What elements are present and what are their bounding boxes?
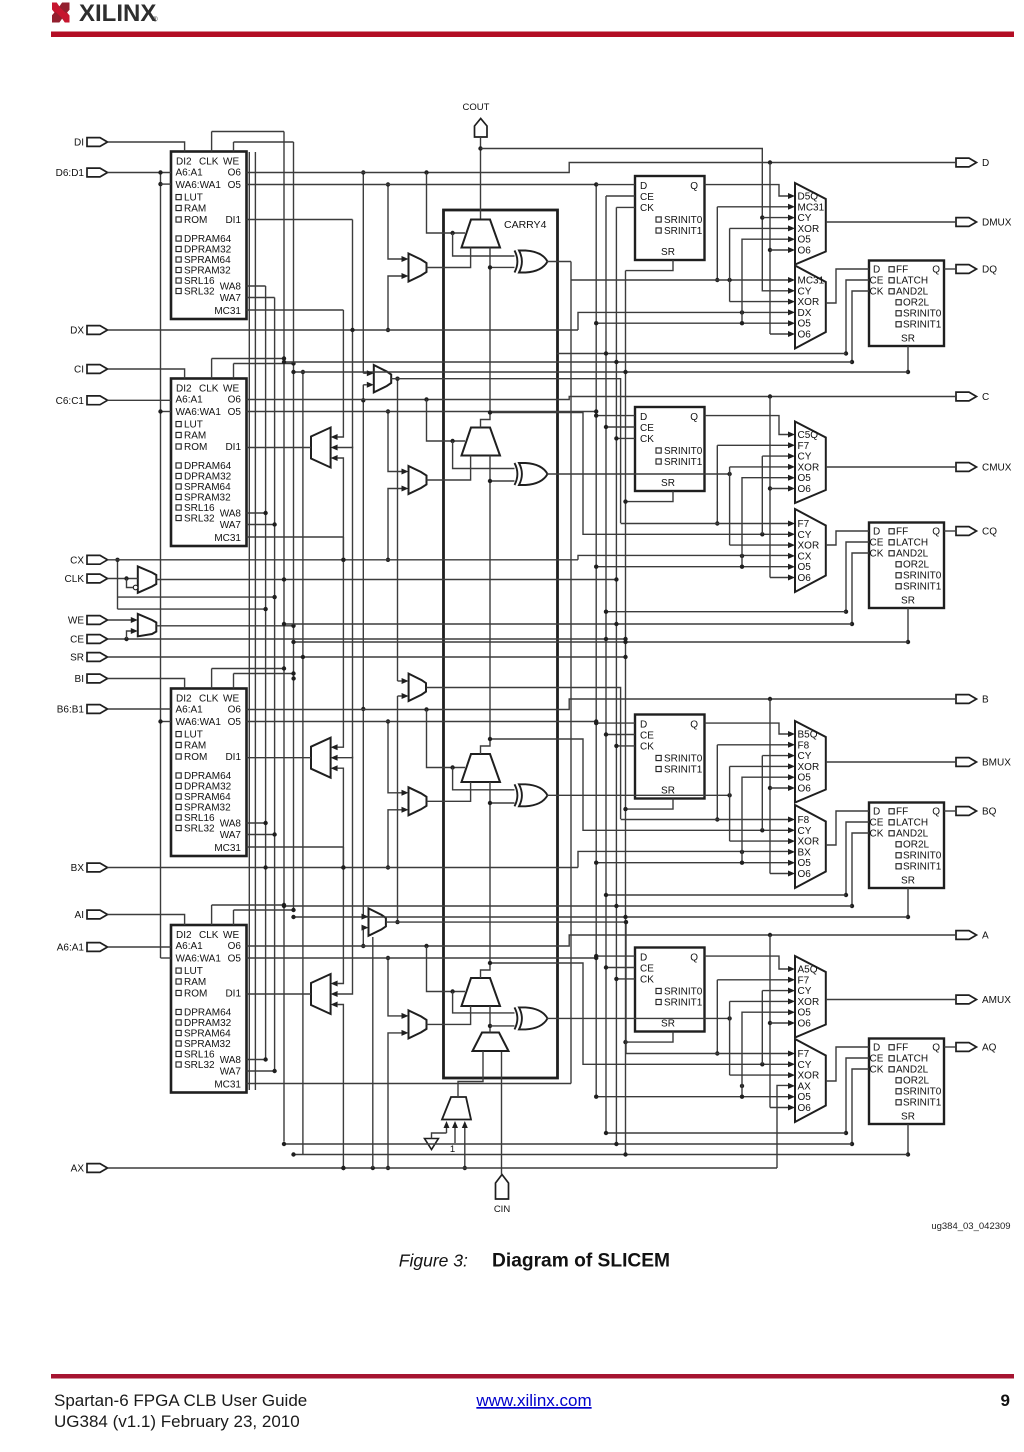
- svg-text:ROM: ROM: [184, 752, 207, 763]
- wire XOR output D: [547, 261, 571, 263]
- output mux DMUX: [795, 183, 826, 265]
- wire clock branch LUT D: [212, 131, 284, 133]
- svg-text:SR: SR: [901, 1112, 915, 1123]
- output pin BMUX: [956, 758, 977, 767]
- wire O5 D to FF: [247, 184, 597, 186]
- wire FF/LAT CE CK B: [846, 822, 869, 895]
- wire BI to LUT B: [108, 679, 185, 689]
- svg-text:O5: O5: [798, 473, 812, 484]
- svg-text:SRINIT0: SRINIT0: [903, 309, 942, 320]
- svg-text:SRINIT1: SRINIT1: [903, 582, 942, 593]
- svg-text:O5: O5: [798, 235, 812, 246]
- svg-text:DX: DX: [70, 326, 84, 337]
- storage element FF/LAT BFF: [869, 803, 944, 889]
- XOR gate D: [519, 251, 548, 273]
- wire A6:A1 to LUT A: [108, 946, 172, 948]
- svg-text:SRL16: SRL16: [184, 276, 215, 287]
- wire CE underline B: [606, 894, 846, 896]
- CARRY4 block: [444, 210, 558, 1078]
- svg-text:CK: CK: [870, 829, 884, 840]
- svg-text:SRINIT0: SRINIT0: [903, 571, 942, 582]
- svg-text:SRINIT1: SRINIT1: [903, 862, 942, 873]
- wire select to XOR C: [453, 441, 515, 469]
- wire select to XOR B: [453, 768, 515, 790]
- wire FF/LAT Q to pin D: [944, 268, 956, 270]
- output mux AQ source mux: [795, 1039, 826, 1122]
- svg-text:DI: DI: [74, 138, 84, 149]
- wire O5 comb C: [596, 566, 788, 568]
- wire rail CLK: [283, 132, 285, 1142]
- svg-text:WA7: WA7: [220, 830, 242, 841]
- svg-text:COUT: COUT: [463, 102, 490, 113]
- wire carry init output: [458, 1051, 483, 1097]
- svg-text:CMUX: CMUX: [982, 463, 1012, 474]
- wire DI mux A inputs: [388, 958, 402, 1016]
- svg-text:AI: AI: [75, 910, 84, 921]
- svg-text:D5Q: D5Q: [798, 192, 819, 203]
- wire rail WE: [293, 142, 295, 910]
- wire O6 A to output: [247, 935, 957, 946]
- output pin CQ: [956, 527, 977, 536]
- wire SR underline B: [294, 916, 909, 918]
- wire DI mux C output: [427, 456, 471, 481]
- PRECYINIT mux: [473, 1033, 509, 1052]
- wire MC31 C: [247, 536, 344, 538]
- svg-text:SRL16: SRL16: [184, 813, 215, 824]
- svg-text:XOR: XOR: [798, 997, 820, 1008]
- wire CE underline A: [606, 1132, 846, 1134]
- wire MUXF7 A output F7: [386, 922, 626, 1053]
- wire CY tap D: [481, 149, 789, 291]
- Xilinx logo glyph: [52, 2, 70, 23]
- svg-text:DQ: DQ: [982, 265, 997, 276]
- svg-text:F7: F7: [798, 1049, 810, 1060]
- wire O5 comb B: [596, 862, 788, 864]
- svg-text:O5: O5: [798, 319, 812, 330]
- wire MUXF8 B inputs: [398, 680, 402, 682]
- svg-text:D: D: [640, 720, 647, 731]
- XOR gate A: [519, 1007, 548, 1029]
- wire WE buffer output: [156, 625, 293, 627]
- svg-text:RAM: RAM: [184, 204, 206, 215]
- wire WA8 stub C: [247, 512, 266, 514]
- mux MUXF7 A: [369, 908, 386, 935]
- wire FF SR C: [626, 491, 674, 502]
- output mux AMUX: [795, 956, 826, 1038]
- svg-text:DPRAM32: DPRAM32: [184, 245, 232, 256]
- svg-text:LUT: LUT: [184, 420, 203, 431]
- svg-text:SR: SR: [901, 334, 915, 345]
- wire BX line: [108, 867, 579, 869]
- svg-text:BQ: BQ: [982, 807, 997, 818]
- wire O6 comb C: [769, 397, 771, 578]
- wire WA7 stub A: [247, 1070, 275, 1072]
- svg-text:DMUX: DMUX: [982, 218, 1012, 229]
- wire vertical F7 chain: [397, 379, 399, 681]
- svg-text:CY: CY: [798, 751, 812, 762]
- wire MUXF7 C inputs: [363, 372, 367, 374]
- svg-text:O6: O6: [798, 246, 812, 257]
- svg-text:DPRAM64: DPRAM64: [184, 771, 232, 782]
- constant 0 marker: [425, 1139, 439, 1150]
- svg-text:CE: CE: [640, 192, 654, 203]
- wire WA7 stub B: [247, 834, 275, 836]
- svg-text:CK: CK: [870, 1065, 884, 1076]
- wire XOR B carry input: [490, 802, 515, 804]
- svg-text:FF: FF: [896, 265, 908, 276]
- svg-text:O5: O5: [228, 717, 242, 728]
- wire DI1 mux C input MC31: [338, 310, 344, 437]
- svg-text:CK: CK: [640, 203, 654, 214]
- svg-text:O5: O5: [228, 407, 242, 418]
- wire FF/LAT Q to pin C: [944, 530, 956, 532]
- output pin AMUX: [956, 995, 977, 1004]
- wire MUXF8 B output F8: [427, 688, 621, 820]
- svg-text:SR: SR: [661, 1019, 675, 1030]
- svg-text:O5: O5: [798, 858, 812, 869]
- DI1 write mux C: [311, 428, 331, 468]
- svg-text:O6: O6: [798, 869, 812, 880]
- wire O5 A to FF: [247, 957, 597, 959]
- svg-text:SRL32: SRL32: [184, 1060, 215, 1071]
- XOR gate C: [519, 463, 548, 485]
- svg-text:O6: O6: [798, 784, 812, 795]
- wire vertical near LUT 1: [248, 152, 250, 1090]
- wire WE branch LUT B: [234, 673, 294, 675]
- svg-text:LUT: LUT: [184, 193, 203, 204]
- wire O6 B to select: [427, 710, 466, 768]
- svg-text:WE: WE: [223, 384, 239, 395]
- wire DI1 mux A input DI1: [338, 757, 353, 995]
- wire O6 comb D: [769, 163, 771, 335]
- wire XOR C carry input: [490, 480, 515, 482]
- wire CK underline A: [284, 1143, 852, 1145]
- svg-text:OR2L: OR2L: [903, 1076, 930, 1087]
- svg-text:SPRAM64: SPRAM64: [184, 482, 231, 493]
- svg-text:A6:A1: A6:A1: [176, 941, 204, 952]
- svg-text:XOR: XOR: [798, 462, 820, 473]
- wire FF/LAT Q to pin B: [944, 810, 956, 812]
- svg-text:Q: Q: [690, 181, 698, 192]
- svg-text:CK: CK: [640, 434, 654, 445]
- wire FF SR D: [626, 260, 674, 271]
- wire CI to LUT C: [108, 369, 185, 379]
- svg-text:SPRAM32: SPRAM32: [184, 266, 231, 277]
- wire DI1 D east: [247, 219, 353, 221]
- svg-text:WA8: WA8: [220, 509, 242, 520]
- svg-text:CX: CX: [70, 555, 84, 566]
- svg-text:SPRAM32: SPRAM32: [184, 1039, 231, 1050]
- svg-text:WA6:WA1: WA6:WA1: [176, 717, 222, 728]
- svg-text:B6:B1: B6:B1: [57, 705, 85, 716]
- output pin CMUX: [956, 463, 977, 472]
- svg-text:SRL16: SRL16: [184, 1050, 215, 1061]
- svg-text:XOR: XOR: [798, 1071, 820, 1082]
- svg-text:Q: Q: [690, 953, 698, 964]
- storage element FF A5FF: [635, 948, 705, 1032]
- svg-text:WE: WE: [68, 616, 84, 627]
- svg-text:WA8: WA8: [220, 1055, 242, 1066]
- output pin AQ: [956, 1043, 977, 1052]
- wire 5Q mux output C: [826, 466, 956, 468]
- wire clock branch LUT B: [212, 668, 284, 670]
- svg-text:SRINIT0: SRINIT0: [664, 215, 703, 226]
- LUT block D (function generator): [171, 152, 247, 320]
- output pin DMUX: [956, 218, 977, 227]
- svg-text:DPRAM32: DPRAM32: [184, 1018, 232, 1029]
- svg-text:BX: BX: [71, 863, 85, 874]
- wire XOR D carry input: [490, 266, 515, 268]
- svg-text:1: 1: [450, 1144, 455, 1155]
- wire XOR output B: [547, 794, 730, 796]
- svg-text:CX: CX: [798, 551, 812, 562]
- wire vertical SR distribution: [625, 271, 627, 1155]
- wire FF Q to 5Q D: [705, 185, 789, 196]
- output mux BMUX: [795, 721, 826, 803]
- svg-text:WA7: WA7: [220, 293, 242, 304]
- svg-text:OR2L: OR2L: [903, 840, 930, 851]
- wire rail SR: [302, 372, 304, 1155]
- svg-text:SRINIT0: SRINIT0: [664, 754, 703, 765]
- wire DI1 mux C input DI1: [338, 220, 353, 448]
- wire CY tap C: [490, 413, 788, 535]
- svg-text:DI2: DI2: [176, 694, 192, 705]
- wire clock branch LUT A: [212, 904, 284, 906]
- svg-text:WA8: WA8: [220, 282, 242, 293]
- wire clock branch LUT C: [212, 358, 284, 360]
- svg-text:CI: CI: [74, 365, 84, 376]
- wire AX line: [108, 1167, 778, 1169]
- wire vertical O5 branch: [595, 185, 597, 1097]
- svg-text:DI1: DI1: [225, 752, 241, 763]
- svg-text:WE: WE: [223, 157, 239, 168]
- svg-text:F7: F7: [798, 519, 810, 530]
- svg-text:Diagram of SLICEM: Diagram of SLICEM: [492, 1251, 670, 1272]
- wire MC31 input comb D: [717, 206, 788, 208]
- wire rail WA8: [265, 286, 267, 1060]
- svg-text:OR2L: OR2L: [903, 298, 930, 309]
- svg-text:CY: CY: [798, 1060, 812, 1071]
- wire vertical MC31A riser: [570, 262, 572, 1084]
- wire MC31 input comb A: [717, 979, 788, 981]
- wire FF Q to 5Q B: [705, 723, 789, 734]
- wire AX riser: [372, 937, 374, 1168]
- svg-text:D: D: [640, 953, 647, 964]
- svg-text:FF: FF: [896, 807, 908, 818]
- wire MC31 D: [247, 309, 344, 311]
- wire CY tap B: [490, 739, 788, 830]
- svg-text:MC31: MC31: [798, 276, 825, 287]
- clock buffer: [138, 566, 157, 592]
- svg-text:ROM: ROM: [184, 442, 207, 453]
- wire FF/LAT SR C: [907, 608, 909, 642]
- svg-text:WA8: WA8: [220, 819, 242, 830]
- svg-text:CE: CE: [640, 964, 654, 975]
- svg-text:CLK: CLK: [199, 384, 219, 395]
- svg-text:Q: Q: [690, 720, 698, 731]
- wire O5 B to FF: [247, 721, 597, 723]
- wire select to XOR D: [453, 233, 515, 256]
- svg-text:A: A: [982, 931, 989, 942]
- svg-text:CE: CE: [640, 423, 654, 434]
- wire PRECYINIT to carry chain: [489, 1006, 491, 1033]
- carry init mux: [442, 1097, 471, 1120]
- svg-text:O6: O6: [798, 573, 812, 584]
- svg-text:AND2L: AND2L: [896, 1065, 929, 1076]
- wire Q mux output to FF/LAT C: [826, 531, 869, 545]
- wire O6 C to select: [427, 400, 466, 442]
- wire 5Q mux output B: [826, 761, 956, 763]
- output mux DQ source mux: [795, 266, 826, 349]
- wire WE branch LUT C: [234, 363, 294, 365]
- wire CIN to PRECYINIT: [501, 1051, 503, 1175]
- wire CE underline D: [557, 353, 846, 355]
- svg-text:SR: SR: [661, 478, 675, 489]
- svg-text:O5: O5: [228, 180, 242, 191]
- svg-text:BI: BI: [75, 674, 84, 685]
- svg-text:AQ: AQ: [982, 1043, 997, 1054]
- svg-text:DI1: DI1: [225, 989, 241, 1000]
- wire WA8 stub A: [247, 1059, 266, 1061]
- wire DI1 mux A input MC31: [338, 847, 344, 984]
- svg-text:SPRAM64: SPRAM64: [184, 255, 231, 266]
- svg-text:B: B: [982, 695, 989, 706]
- wire FF/LAT SR D: [907, 346, 909, 372]
- footer rule: [51, 1374, 1014, 1379]
- wire SR underline A: [294, 1154, 909, 1156]
- wire DI mux B inputs: [388, 722, 402, 793]
- svg-text:CY: CY: [798, 986, 812, 997]
- storage element FF/LAT DFF: [869, 261, 944, 347]
- wire DI1 mux A output: [247, 993, 312, 995]
- wire WA8 stub B: [247, 822, 266, 824]
- svg-text:A6:A1: A6:A1: [57, 943, 85, 954]
- wire O5 C to FF: [247, 411, 597, 413]
- svg-text:SRINIT0: SRINIT0: [664, 987, 703, 998]
- DI mux B: [409, 787, 427, 815]
- svg-text:DI1: DI1: [225, 442, 241, 453]
- wire WE branch LUT D: [234, 141, 294, 143]
- wire O6 A to select: [427, 946, 466, 992]
- svg-text:OR2L: OR2L: [903, 560, 930, 571]
- DI mux A: [409, 1010, 427, 1038]
- wire Q mux output to FF/LAT A: [826, 1047, 869, 1081]
- COUT pin: [463, 102, 490, 137]
- output pin A: [956, 931, 977, 940]
- svg-text:O5: O5: [228, 954, 242, 965]
- wire O6 C to output: [247, 397, 957, 400]
- svg-text:O6: O6: [228, 705, 242, 716]
- DI mux C: [409, 466, 427, 494]
- svg-text:MC31: MC31: [214, 1080, 241, 1091]
- wire FF/LAT CE CK A: [846, 1058, 869, 1133]
- wire WE to buffer: [108, 619, 132, 621]
- svg-text:MC31: MC31: [214, 533, 241, 544]
- wire DI mux D inputs: [388, 185, 402, 260]
- svg-text:A5Q: A5Q: [798, 965, 818, 976]
- svg-text:BMUX: BMUX: [982, 758, 1011, 769]
- svg-text:CK: CK: [870, 287, 884, 298]
- wire FF CE CK D: [606, 195, 635, 197]
- svg-text:Q: Q: [932, 527, 940, 538]
- wire DI1 mux B output: [247, 757, 312, 759]
- svg-text:XOR: XOR: [798, 837, 820, 848]
- svg-text:DPRAM64: DPRAM64: [184, 461, 232, 472]
- XOR gate B: [519, 784, 548, 806]
- wire DI1 mux B input DI1: [338, 447, 353, 758]
- output mux CQ source mux: [795, 509, 826, 592]
- svg-text:XOR: XOR: [798, 762, 820, 773]
- svg-text:LATCH: LATCH: [896, 818, 928, 829]
- svg-text:F8: F8: [798, 740, 810, 751]
- svg-text:D: D: [873, 265, 880, 276]
- wire vertical O6 chain to F7 F8: [362, 173, 364, 374]
- wire vertical near LUT 2: [254, 152, 256, 1090]
- svg-text:CARRY4: CARRY4: [504, 219, 547, 231]
- wire WA rail: [160, 173, 162, 959]
- svg-text:XOR: XOR: [798, 297, 820, 308]
- wire O5 comb A: [596, 1096, 788, 1098]
- svg-text:LATCH: LATCH: [896, 1054, 928, 1065]
- svg-text:D6:D1: D6:D1: [56, 168, 85, 179]
- svg-text:CY: CY: [798, 452, 812, 463]
- svg-text:WA6:WA1: WA6:WA1: [176, 180, 222, 191]
- wire FF/LAT SR B: [907, 888, 909, 917]
- svg-text:O5: O5: [798, 1008, 812, 1019]
- svg-text:CQ: CQ: [982, 527, 997, 538]
- svg-text:DPRAM32: DPRAM32: [184, 782, 232, 793]
- storage element FF D5FF: [635, 176, 705, 260]
- wire FF Q to 5Q C: [705, 416, 789, 435]
- svg-text:AX: AX: [71, 1164, 85, 1175]
- wire 5Q mux output D: [826, 221, 956, 223]
- svg-text:WE: WE: [223, 694, 239, 705]
- svg-text:A6:A1: A6:A1: [176, 705, 204, 716]
- wire O6 D to select: [427, 173, 466, 234]
- wire XOR output A: [547, 1017, 730, 1019]
- wire WA7 stub C: [247, 524, 275, 526]
- svg-text:WE: WE: [223, 930, 239, 941]
- svg-text:SR: SR: [70, 653, 84, 664]
- wire XOR output C: [547, 473, 730, 475]
- wire DX line: [108, 329, 579, 331]
- wire carry chain C-D: [481, 248, 491, 428]
- svg-text:CK: CK: [640, 742, 654, 753]
- svg-text:SPRAM32: SPRAM32: [184, 803, 231, 814]
- wire O6 D to output: [247, 163, 957, 173]
- svg-text:D: D: [873, 1043, 880, 1054]
- svg-text:O6: O6: [228, 395, 242, 406]
- svg-text:Q: Q: [932, 807, 940, 818]
- svg-text:www.xilinx.com: www.xilinx.com: [475, 1391, 591, 1410]
- svg-text:CK: CK: [640, 975, 654, 986]
- wire D6:D1 to LUT D: [108, 172, 172, 174]
- wire DI mux A output: [427, 1006, 471, 1024]
- svg-text:F7: F7: [798, 975, 810, 986]
- svg-text:SPRAM64: SPRAM64: [184, 1029, 231, 1040]
- output pin B: [956, 695, 977, 704]
- svg-text:SRL32: SRL32: [184, 514, 215, 525]
- wire SR underline C: [294, 641, 909, 643]
- svg-text:SRL32: SRL32: [184, 287, 215, 298]
- wire vertical CK distribution: [615, 207, 617, 1144]
- svg-text:AX: AX: [798, 1081, 812, 1092]
- svg-text:SRINIT1: SRINIT1: [664, 457, 703, 468]
- svg-text:UG384 (v1.1) February 23, 2010: UG384 (v1.1) February 23, 2010: [54, 1412, 300, 1431]
- wire Q mux output to FF/LAT B: [826, 811, 869, 845]
- svg-text:ROM: ROM: [184, 215, 207, 226]
- wire 5Q mux output A: [826, 999, 956, 1001]
